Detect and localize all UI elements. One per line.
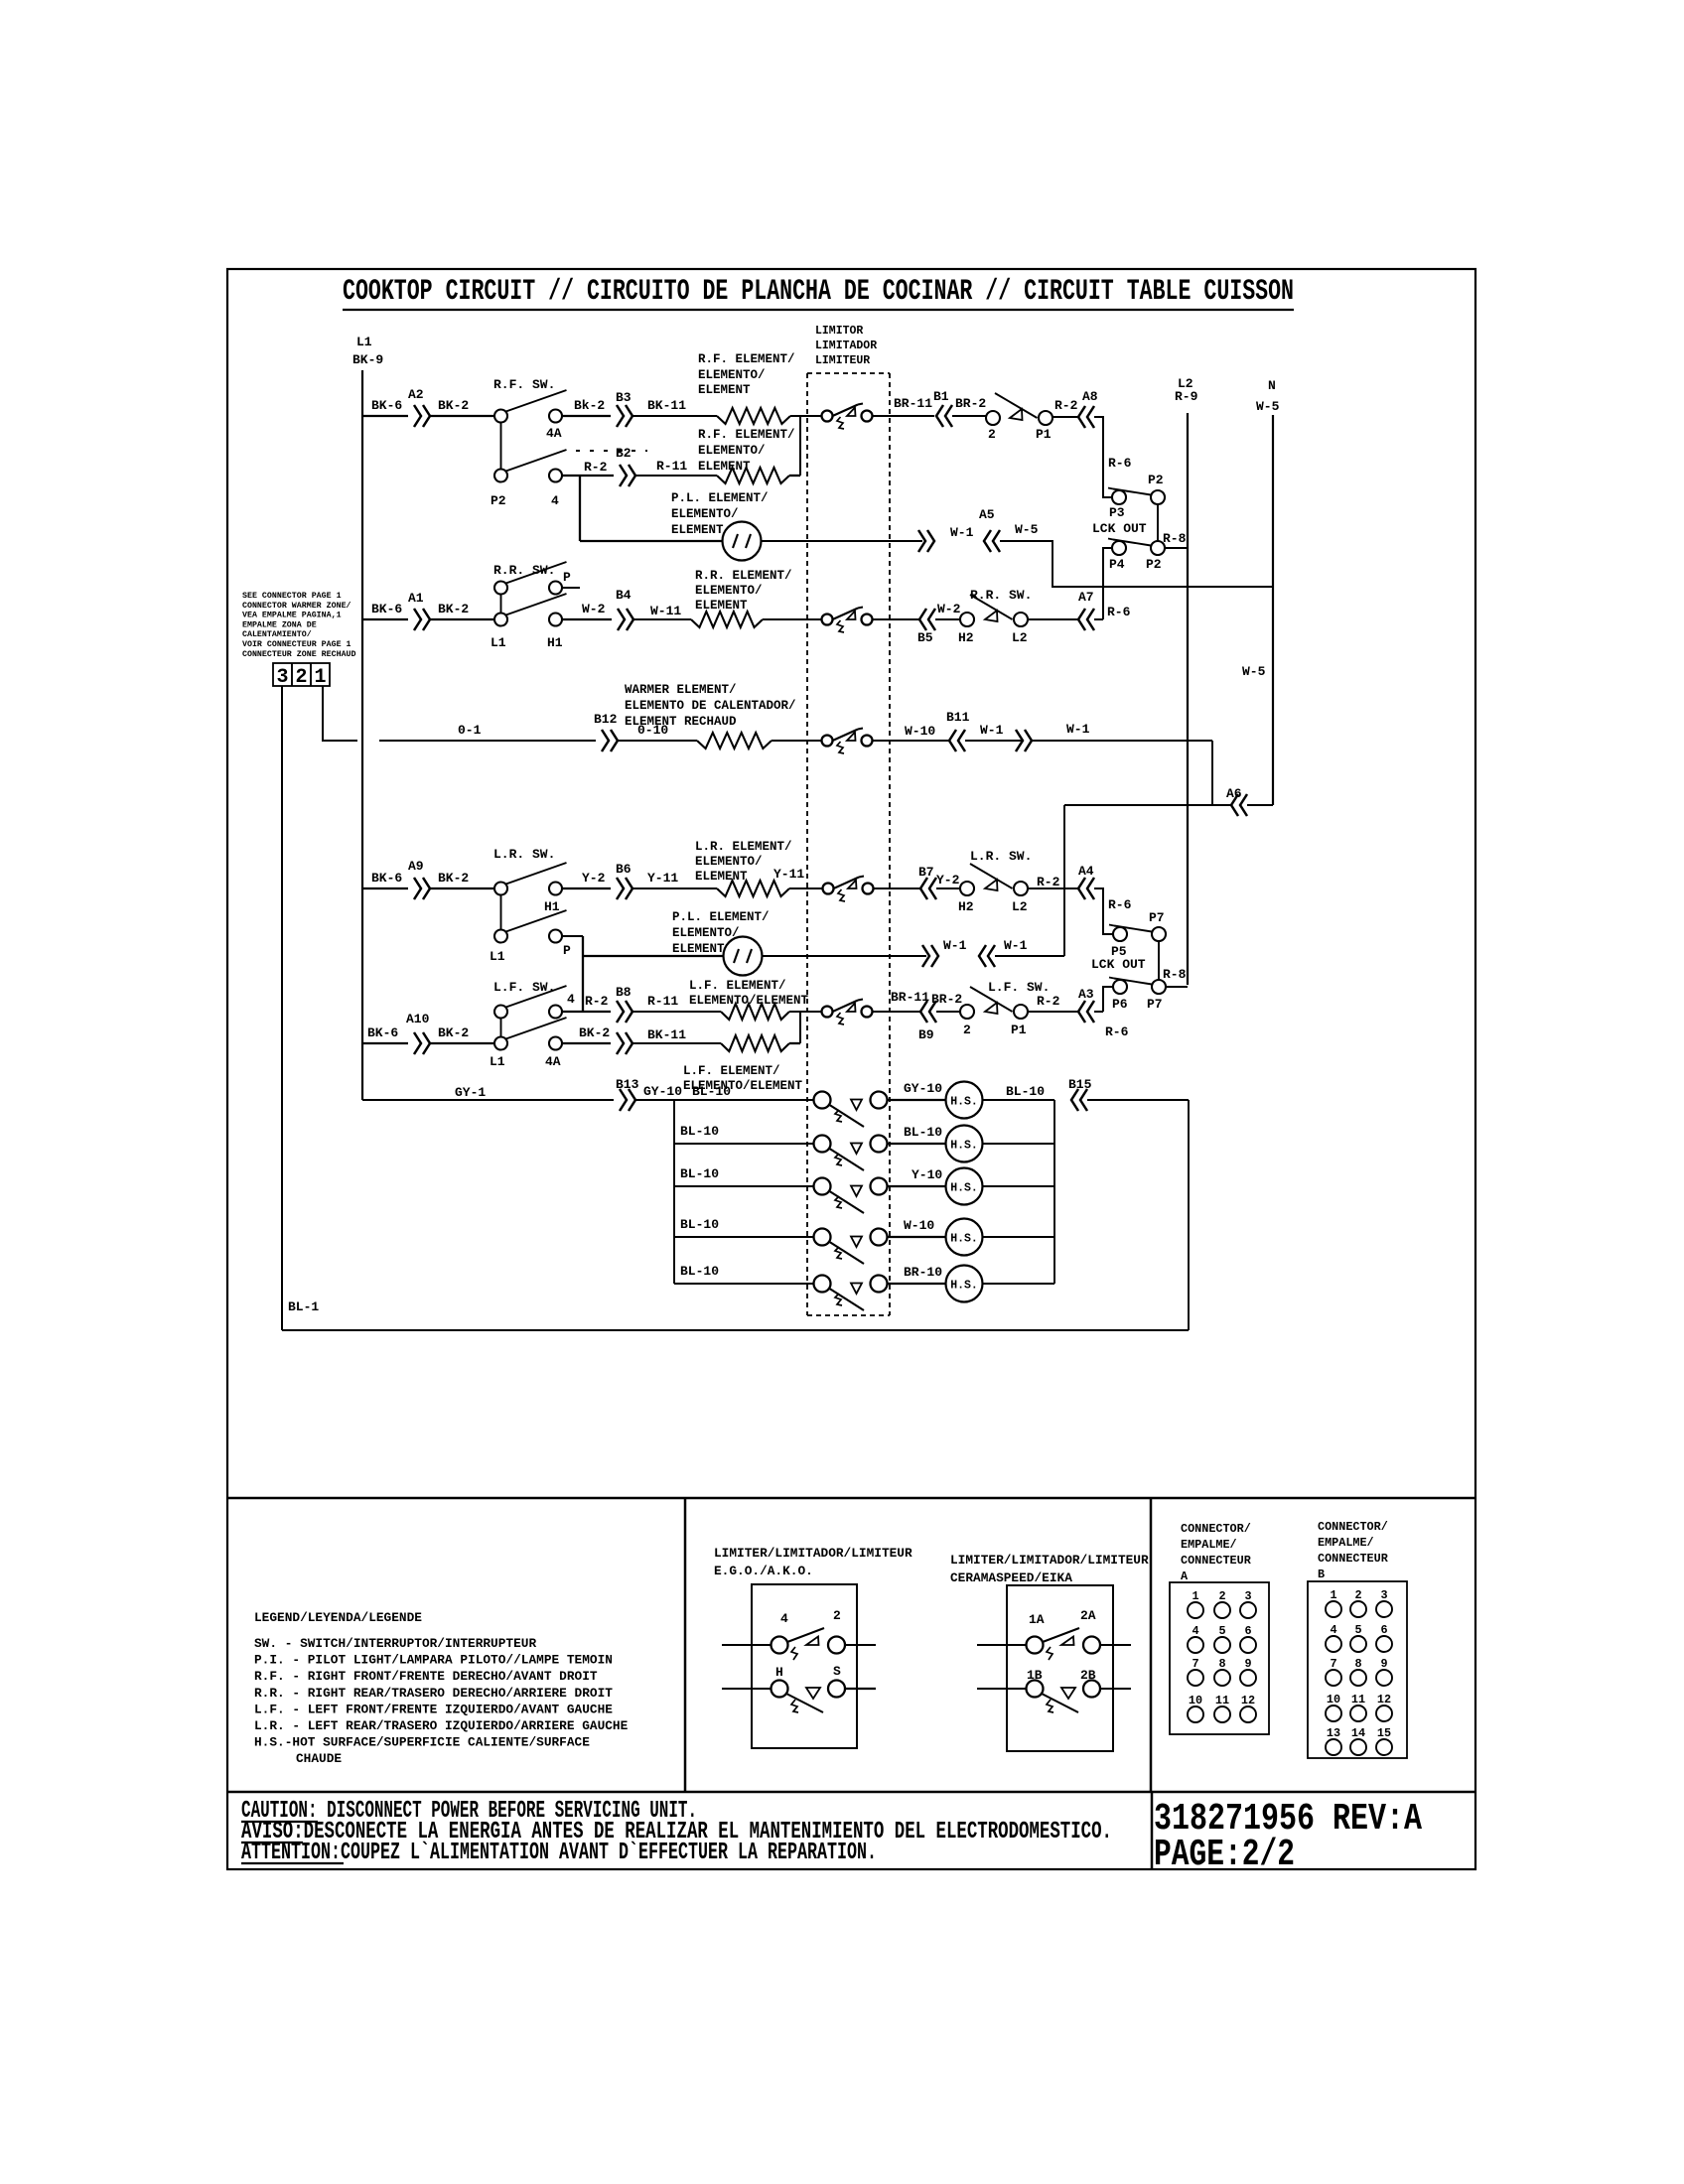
limiter switch H.S. row 5	[814, 1276, 831, 1293]
wire row2 after switch	[562, 475, 614, 477]
svg-text:A: A	[1181, 1570, 1189, 1583]
svg-text:ELEMENT: ELEMENT	[671, 523, 724, 537]
svg-text:8: 8	[1218, 1657, 1225, 1671]
svg-text:L.F. SW.: L.F. SW.	[988, 980, 1050, 995]
connector B12	[602, 730, 609, 751]
svg-text:H1: H1	[544, 899, 560, 914]
wire A6 to N bus	[1247, 804, 1273, 806]
wire row1 limiter to B1	[873, 415, 934, 417]
junction row2 drop	[579, 476, 581, 541]
connector P.L.2 A-side	[979, 945, 986, 967]
svg-text:R-8: R-8	[1163, 967, 1187, 982]
wire ladder row 3 left	[674, 1185, 813, 1187]
svg-text:B11: B11	[946, 710, 970, 725]
connector B3	[617, 405, 624, 427]
wire row6 limiter to B7	[874, 887, 920, 889]
scan dashes near B2	[576, 450, 647, 452]
svg-text:L1: L1	[491, 635, 506, 650]
svg-text:S: S	[833, 1664, 841, 1679]
svg-text:B2: B2	[616, 446, 631, 461]
svg-text:1B: 1B	[1027, 1668, 1043, 1683]
connector B2	[620, 465, 627, 486]
svg-text:LCK OUT: LCK OUT	[1091, 957, 1146, 972]
svg-text:B1: B1	[933, 389, 949, 404]
limiter CERAMASPEED box	[1007, 1585, 1113, 1751]
limiter switch EGO 4-2	[772, 1637, 788, 1654]
svg-text:R.R. SW.: R.R. SW.	[493, 563, 555, 578]
svg-text:15: 15	[1377, 1726, 1391, 1740]
wire P.L. right	[762, 540, 922, 542]
svg-text:BK-2: BK-2	[438, 1025, 469, 1040]
connector warmer A-side	[1016, 730, 1023, 751]
svg-text:9: 9	[1244, 1657, 1251, 1671]
svg-text:ELEMENTO/: ELEMENTO/	[698, 368, 766, 382]
svg-text:SEE CONNECTOR PAGE 1: SEE CONNECTOR PAGE 1	[242, 592, 342, 601]
thermal limiter L.R.	[823, 884, 834, 894]
svg-text:LIMITOR: LIMITOR	[815, 325, 863, 338]
svg-text:H2: H2	[958, 630, 974, 645]
wire row 2 lamp to rail	[983, 1143, 1055, 1145]
svg-text:6: 6	[1244, 1624, 1251, 1638]
svg-text:B12: B12	[594, 712, 618, 727]
svg-text:E.G.O./A.K.O.: E.G.O./A.K.O.	[714, 1564, 813, 1578]
svg-text:LIMITER/LIMITADOR/LIMITEUR: LIMITER/LIMITADOR/LIMITEUR	[714, 1546, 912, 1561]
terminal 2 lower	[960, 1005, 974, 1019]
wire row2 to element	[635, 475, 717, 477]
svg-text:L2: L2	[1012, 630, 1028, 645]
caution box top	[227, 1791, 1475, 1794]
connector A5	[984, 530, 991, 552]
svg-text:1: 1	[1330, 1588, 1336, 1602]
dashed limiter box	[807, 372, 890, 374]
wire row 4 switch to lamp	[888, 1236, 945, 1238]
connector A3	[1078, 1001, 1085, 1023]
svg-text:L.F. ELEMENT/: L.F. ELEMENT/	[689, 979, 786, 993]
resistor L.F. element lower	[721, 1035, 789, 1051]
svg-text:EMPALME ZONA DE: EMPALME ZONA DE	[242, 620, 317, 629]
svg-text:BK-2: BK-2	[438, 871, 469, 886]
limiter switch CER 1B-2B	[1027, 1681, 1044, 1698]
svg-text:W-2: W-2	[582, 602, 606, 616]
svg-text:COOKTOP CIRCUIT // CIRCUITO DE: COOKTOP CIRCUIT // CIRCUITO DE PLANCHA D…	[343, 275, 1294, 309]
switch R.R. SW pole main	[494, 614, 507, 626]
connector A10	[414, 1032, 421, 1054]
wire row8 left	[362, 1042, 408, 1044]
svg-text:1: 1	[314, 666, 326, 689]
svg-text:W-5: W-5	[1015, 522, 1039, 537]
svg-text:CHAUDE: CHAUDE	[296, 1751, 342, 1766]
svg-text:14: 14	[1351, 1726, 1365, 1740]
resistor warmer element	[697, 733, 772, 749]
svg-text:2: 2	[988, 427, 996, 442]
svg-text:9: 9	[1380, 1657, 1387, 1671]
wire link R.R. SW poles	[500, 595, 502, 614]
svg-text:2A: 2A	[1080, 1608, 1096, 1623]
svg-text:ELEMENTO/: ELEMENTO/	[695, 584, 763, 598]
wire B9 to terminal 2	[936, 1011, 960, 1013]
svg-text:BL-10: BL-10	[680, 1166, 719, 1181]
wire row4 to R.R. SW	[430, 618, 494, 620]
svg-text:13: 13	[1327, 1726, 1340, 1740]
title underline	[343, 309, 1294, 311]
pilot light P.L. element 2	[724, 937, 763, 976]
svg-text:W-5: W-5	[1256, 399, 1280, 414]
resistor L.F. element upper	[721, 1004, 789, 1020]
wire warmer to element	[618, 740, 697, 742]
wire row6 after switch	[562, 887, 611, 889]
svg-text:L1: L1	[356, 335, 372, 349]
limiter switch CER 1A-2A	[1027, 1637, 1044, 1654]
wire row2 element to riser	[789, 475, 800, 477]
wire connector-1 drop	[323, 686, 357, 741]
svg-text:BK-11: BK-11	[647, 1027, 686, 1042]
svg-text:0-1: 0-1	[458, 723, 482, 738]
svg-text:P7: P7	[1149, 910, 1165, 925]
wire row1 B1 to terminal 2	[952, 415, 986, 417]
hot surface lamp H.S. 4	[946, 1219, 983, 1256]
svg-text:B3: B3	[616, 390, 631, 405]
svg-text:ELEMENT: ELEMENT	[698, 383, 751, 397]
svg-text:L.R. SW.: L.R. SW.	[970, 849, 1032, 864]
svg-text:0-10: 0-10	[637, 723, 668, 738]
svg-text:BL-10: BL-10	[692, 1084, 731, 1099]
svg-text:CONNECTEUR ZONE RECHAUD: CONNECTEUR ZONE RECHAUD	[242, 650, 356, 659]
svg-text:B15: B15	[1068, 1077, 1092, 1092]
svg-text:BK-2: BK-2	[438, 398, 469, 413]
wire row4 left	[362, 618, 408, 620]
wire row6 to element	[632, 887, 717, 889]
wire row6 to L.R. SW	[430, 887, 494, 889]
svg-text:B4: B4	[616, 588, 631, 603]
svg-text:7: 7	[1192, 1657, 1198, 1671]
svg-text:1: 1	[1192, 1589, 1198, 1603]
switch L.F. SW pole 4	[494, 1006, 507, 1019]
connector 321 box	[273, 663, 330, 686]
svg-text:BL-10: BL-10	[680, 1264, 719, 1279]
svg-text:CONNECTOR/: CONNECTOR/	[1181, 1522, 1251, 1536]
wire row7 P1 to A3	[1028, 1011, 1077, 1013]
svg-text:BL-1: BL-1	[288, 1299, 319, 1314]
wire B5 to H2	[935, 618, 960, 620]
connector P.L. B-side	[918, 530, 925, 552]
svg-text:2: 2	[295, 666, 307, 689]
svg-text:GY-1: GY-1	[455, 1085, 486, 1100]
wire row 4 lamp to rail	[983, 1236, 1055, 1238]
wire row 1 switch to lamp	[888, 1099, 945, 1101]
svg-text:R-11: R-11	[647, 994, 678, 1009]
wire ladder row 5 left	[674, 1283, 813, 1285]
wire row7 element to limiter	[789, 1011, 822, 1013]
terminal P1 lower	[1014, 1005, 1028, 1019]
svg-text:R-2: R-2	[1037, 875, 1060, 889]
svg-text:A4: A4	[1078, 864, 1094, 879]
terminal H2	[960, 613, 974, 626]
limiter switch EGO H-S	[772, 1681, 788, 1698]
svg-text:BK-6: BK-6	[371, 602, 402, 616]
svg-text:1A: 1A	[1029, 1612, 1045, 1627]
svg-text:8: 8	[1354, 1657, 1361, 1671]
switch L.R. SW pole P	[494, 930, 507, 943]
wire row6 L2 to A4	[1028, 887, 1077, 889]
wire P.L.2 riser	[1063, 805, 1065, 956]
svg-text:P4: P4	[1109, 557, 1125, 572]
svg-text:P.I. - PILOT LIGHT/LAMPARA PIL: P.I. - PILOT LIGHT/LAMPARA PILOTO//LAMPE…	[254, 1653, 613, 1668]
wire row1 element to limiter	[790, 415, 822, 417]
svg-text:3: 3	[276, 666, 288, 689]
connector A1	[414, 609, 421, 630]
footer column divider right	[1150, 1498, 1153, 1792]
svg-text:4: 4	[1330, 1623, 1336, 1637]
svg-text:2: 2	[1218, 1589, 1225, 1603]
svg-text:N: N	[1268, 378, 1276, 393]
wire EGO row1 left	[722, 1644, 771, 1646]
connector B5	[919, 609, 926, 630]
svg-text:B13: B13	[616, 1077, 639, 1092]
resistor L.R. element	[717, 881, 789, 896]
svg-text:4A: 4A	[546, 426, 562, 441]
junction row2 riser	[799, 416, 801, 476]
wire row4 after switch	[562, 618, 612, 620]
wire EGO row1 right	[845, 1644, 876, 1646]
svg-text:P6: P6	[1112, 997, 1128, 1012]
wire ladder row 4 left	[674, 1236, 813, 1238]
connector A4	[1078, 878, 1085, 899]
svg-text:CONNECTEUR: CONNECTEUR	[1318, 1552, 1389, 1566]
svg-text:R-6: R-6	[1108, 897, 1132, 912]
wire P7 link	[1158, 941, 1160, 980]
wire GY-1 row	[362, 1099, 614, 1101]
wire P.L.2 right	[763, 955, 926, 957]
svg-text:BK-9: BK-9	[352, 352, 383, 367]
svg-text:BR-2: BR-2	[931, 992, 962, 1007]
wire row8 element to riser	[789, 1042, 800, 1044]
wire row4 element to limiter	[763, 618, 822, 620]
lockout contact P3-P2	[1112, 490, 1126, 504]
wire row8 to L.F. SW	[430, 1042, 494, 1044]
wire warmer left	[379, 740, 596, 742]
svg-text:LIMITEUR: LIMITEUR	[815, 354, 870, 367]
terminal P1	[1039, 411, 1052, 425]
svg-text:12: 12	[1241, 1694, 1255, 1707]
wire row7 to element	[632, 1011, 721, 1013]
svg-text:CONNECTOR/: CONNECTOR/	[1318, 1520, 1388, 1534]
svg-text:Y-10: Y-10	[912, 1167, 942, 1182]
resistor R.F. element	[717, 408, 790, 424]
wire return riser	[1188, 1100, 1190, 1330]
svg-text:H.S.: H.S.	[950, 1233, 978, 1246]
switch L.R. SW pole main	[494, 883, 507, 895]
svg-text:4: 4	[551, 493, 559, 508]
connector A box	[1170, 1582, 1269, 1734]
wire R-6 drop A8 to P3	[1094, 417, 1112, 497]
svg-text:VOIR CONNECTEUR PAGE 1: VOIR CONNECTEUR PAGE 1	[242, 640, 351, 649]
svg-text:H.S.: H.S.	[950, 1182, 978, 1195]
connector B8	[617, 1001, 624, 1023]
svg-text:GY-10: GY-10	[904, 1081, 942, 1096]
svg-text:R-6: R-6	[1108, 456, 1132, 471]
wire P.L.2 left	[583, 955, 723, 957]
svg-text:ELEMENTO/: ELEMENTO/	[698, 444, 766, 458]
svg-text:L.R. - LEFT REAR/TRASERO IZQUI: L.R. - LEFT REAR/TRASERO IZQUIERDO/ARRIE…	[254, 1718, 629, 1733]
svg-text:P: P	[563, 943, 571, 958]
svg-text:P3: P3	[1109, 505, 1125, 520]
svg-text:P7: P7	[1147, 997, 1163, 1012]
footer column divider left	[684, 1498, 687, 1792]
hot surface lamp H.S. 2	[946, 1126, 983, 1162]
svg-text:WARMER ELEMENT/: WARMER ELEMENT/	[625, 683, 737, 697]
svg-text:3: 3	[1380, 1588, 1387, 1602]
connector B4	[618, 609, 625, 630]
wire link R.F. SW poles	[500, 423, 502, 470]
svg-text:BR-11: BR-11	[894, 396, 932, 411]
svg-text:R.R. - RIGHT REAR/TRASERO DERE: R.R. - RIGHT REAR/TRASERO DERECHO/ARRIER…	[254, 1686, 613, 1701]
wire B13 to switch	[635, 1099, 813, 1101]
svg-text:R-2: R-2	[585, 994, 609, 1009]
svg-text:A1: A1	[408, 591, 424, 606]
wire A5 to N bus	[1000, 541, 1273, 587]
svg-text:L1: L1	[490, 949, 505, 964]
lockout contact P4-P2	[1112, 541, 1126, 555]
wire link L.F. SW poles	[500, 1019, 502, 1037]
svg-text:VEA EMPALME PAGINA,1: VEA EMPALME PAGINA,1	[242, 612, 342, 620]
wire ladder right rail	[1053, 1100, 1055, 1284]
svg-text:ELEMENT: ELEMENT	[695, 870, 748, 884]
svg-text:Y-11: Y-11	[773, 867, 804, 882]
svg-text:P1: P1	[1036, 427, 1052, 442]
wire row4 limiter to B5	[873, 618, 919, 620]
svg-text:10: 10	[1189, 1694, 1202, 1707]
svg-text:Bk-2: Bk-2	[574, 398, 605, 413]
svg-text:4: 4	[1192, 1624, 1198, 1638]
svg-text:R-2: R-2	[1054, 398, 1078, 413]
wire warmer to A6 drop	[1032, 740, 1212, 742]
svg-text:ELEMENT: ELEMENT	[698, 460, 751, 474]
wire R-6 drop A4 to P5	[1094, 888, 1113, 934]
svg-text:L1: L1	[490, 1054, 505, 1069]
svg-text:W-1: W-1	[943, 938, 967, 953]
svg-text:10: 10	[1327, 1693, 1340, 1706]
svg-text:LIMITADOR: LIMITADOR	[815, 340, 877, 352]
terminal L2 contact	[1014, 613, 1028, 626]
wire P4 drop to A7	[1103, 548, 1112, 619]
connector A7	[1078, 609, 1085, 630]
wire row 2 switch to lamp	[888, 1143, 945, 1145]
svg-text:ELEMENT: ELEMENT	[695, 599, 748, 613]
svg-text:BL-10: BL-10	[1006, 1084, 1045, 1099]
wire row 5 switch to lamp	[888, 1283, 945, 1285]
wire row7 after switch	[562, 1011, 611, 1013]
svg-text:BL-10: BL-10	[904, 1125, 942, 1140]
connector B7	[920, 878, 927, 899]
wire row4 L2 to A7	[1028, 618, 1077, 620]
wire B11 to warmer A-side	[965, 740, 1024, 742]
svg-text:Y-11: Y-11	[647, 871, 678, 886]
wire EGO row2 right	[845, 1688, 876, 1690]
svg-text:W-10: W-10	[904, 1218, 934, 1233]
pilot light P.L. element	[723, 522, 762, 561]
limiter switch H.S. row 4	[814, 1229, 831, 1246]
wire connector-3 drop	[281, 686, 283, 1330]
wire BL-1 return	[282, 1329, 1189, 1331]
wire row1 left	[362, 415, 408, 417]
svg-text:H: H	[775, 1665, 783, 1680]
svg-text:CONNECTEUR: CONNECTEUR	[1181, 1554, 1252, 1568]
svg-text:R-8: R-8	[1163, 531, 1187, 546]
svg-text:BK-2: BK-2	[579, 1025, 610, 1040]
svg-text:PAGE:2/2: PAGE:2/2	[1154, 1834, 1295, 1876]
svg-text:CERAMASPEED/EIKA: CERAMASPEED/EIKA	[950, 1570, 1072, 1585]
svg-text:A3: A3	[1078, 987, 1094, 1002]
svg-text:ELEMENTO/: ELEMENTO/	[672, 926, 740, 940]
svg-text:R-9: R-9	[1175, 389, 1198, 404]
svg-text:R.R. ELEMENT/: R.R. ELEMENT/	[695, 569, 792, 583]
limiter switch H.S. row 3	[814, 1178, 831, 1195]
svg-text:R-2: R-2	[584, 460, 608, 475]
svg-text:H2: H2	[958, 899, 974, 914]
svg-text:P.L. ELEMENT/: P.L. ELEMENT/	[671, 491, 769, 505]
svg-text:L.R. ELEMENT/: L.R. ELEMENT/	[695, 840, 792, 854]
caution box divider	[1151, 1792, 1154, 1869]
svg-text:5: 5	[1354, 1623, 1361, 1637]
svg-text:BR-11: BR-11	[891, 990, 929, 1005]
svg-text:L2: L2	[1012, 899, 1028, 914]
connector A6	[1231, 794, 1238, 816]
wire row4 to element	[633, 618, 691, 620]
lockout contact P5-P7	[1113, 927, 1127, 941]
terminal H2 lower	[960, 882, 974, 895]
wire row 3 switch to lamp	[888, 1185, 945, 1187]
svg-text:R.F. ELEMENT/: R.F. ELEMENT/	[698, 352, 795, 366]
svg-text:B5: B5	[917, 630, 933, 645]
wire P6 drop to A3	[1103, 987, 1113, 1012]
svg-text:3: 3	[1244, 1589, 1251, 1603]
svg-text:Y-2: Y-2	[936, 873, 960, 887]
connector A2	[414, 405, 421, 427]
wire L1 bus	[361, 370, 363, 1100]
svg-text:P1: P1	[1011, 1023, 1027, 1037]
svg-text:LEGEND/LEYENDA/LEGENDE: LEGEND/LEYENDA/LEGENDE	[254, 1610, 422, 1625]
svg-text:5: 5	[1218, 1624, 1225, 1638]
thermal limiter R.F.	[822, 411, 833, 422]
pilot contact P1	[995, 393, 1038, 418]
svg-text:P2: P2	[1148, 473, 1164, 487]
svg-text:ELEMENTO/: ELEMENTO/	[695, 855, 763, 869]
wire row1 P1 to A8	[1052, 416, 1077, 418]
svg-text:A2: A2	[408, 387, 424, 402]
svg-text:H.S.: H.S.	[950, 1096, 978, 1109]
svg-text:L.F. - LEFT FRONT/FRENTE IZQUI: L.F. - LEFT FRONT/FRENTE IZQUIERDO/AVANT…	[254, 1702, 613, 1716]
connector B11	[949, 730, 956, 751]
svg-text:BK-2: BK-2	[438, 602, 469, 616]
wire warmer drop	[1211, 741, 1213, 805]
wire A3 stub	[1094, 1011, 1103, 1013]
svg-text:H1: H1	[547, 635, 563, 650]
limiter switch H.S. row 1	[814, 1092, 831, 1109]
svg-text:2B: 2B	[1080, 1668, 1096, 1683]
wire warmer limiter to B11	[873, 740, 949, 742]
wire P.L.2 to riser	[995, 955, 1064, 957]
switch R.F. SW pole 4	[494, 470, 507, 482]
svg-text:W-5: W-5	[1242, 664, 1266, 679]
wire CER row2 left	[977, 1688, 1026, 1690]
wire row1 to element	[632, 415, 717, 417]
resistor R.F. element 2	[717, 468, 789, 483]
wire row1 after switch	[562, 415, 611, 417]
wire row 1 lamp to rail	[983, 1099, 1055, 1101]
svg-text:CONNECTOR WARMER ZONE/: CONNECTOR WARMER ZONE/	[242, 601, 351, 611]
svg-text:BR-2: BR-2	[955, 396, 986, 411]
resistor R.R. element	[691, 612, 763, 627]
